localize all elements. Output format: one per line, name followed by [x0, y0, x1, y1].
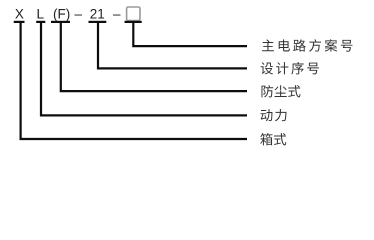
设计序号 design serial number: [261, 62, 319, 74]
svg-text:X: X: [15, 6, 24, 21]
underline under box: [125, 21, 142, 23]
wire from L to dongli label: [41, 23, 247, 116]
underline under (F): [51, 21, 70, 23]
svg-text:(F): (F): [53, 6, 70, 21]
wire from box to zhudianlu label: [133, 23, 247, 46]
动力 power: [261, 109, 287, 121]
underline under 21: [89, 21, 107, 23]
underline under L: [36, 21, 45, 23]
箱式 box type: [260, 133, 286, 145]
svg-text:–: –: [74, 6, 82, 21]
wire from 21 to shejixuhao label: [98, 23, 247, 69]
wire from (F) to fangchenshi label: [61, 23, 247, 92]
wire from X to xiangshi label: [21, 23, 247, 139]
svg-text:L: L: [36, 6, 44, 21]
placeholder box symbol for scheme number: [127, 7, 140, 21]
underline under X: [14, 21, 25, 23]
主电路方案号 main circuit scheme number: [262, 39, 353, 51]
防尘式 dust-proof type: [261, 85, 300, 97]
svg-text:21: 21: [90, 6, 105, 21]
svg-text:–: –: [113, 6, 121, 21]
